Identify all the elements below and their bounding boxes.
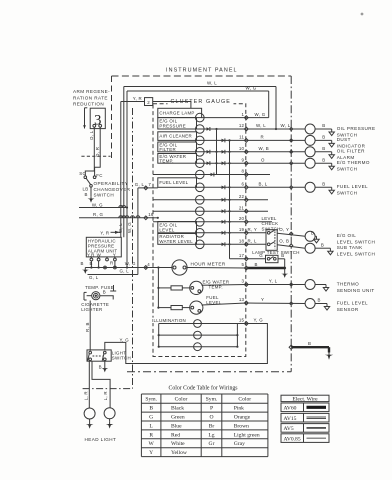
operability changeover switch lever [86, 178, 91, 184]
cluster row pin 20 wire [153, 221, 246, 223]
level check switch box [266, 230, 277, 251]
cluster gauge label [168, 97, 234, 105]
connector diamond pin 6 [244, 185, 248, 189]
cluster row pin 19 wire [197, 232, 247, 234]
oil filter alarm wire [315, 151, 332, 153]
svg-text:W, G: W, G [92, 203, 103, 208]
light switch gang dashes [93, 355, 103, 357]
connector diamond pin 20 [244, 220, 248, 224]
junction dot W,G vertical [126, 206, 128, 208]
junction dot R,G at border [157, 217, 159, 219]
light switch ground wire [104, 361, 106, 366]
svg-text:SUB TANK: SUB TANK [337, 245, 363, 250]
cluster row pin 21 wire [153, 210, 246, 212]
svg-text:B: B [103, 290, 106, 295]
svg-text:W, G: W, G [255, 112, 266, 117]
wire G,L to pin 7 [138, 187, 158, 189]
svg-text:TEMP. FUSE: TEMP. FUSE [85, 285, 114, 290]
svg-text:E/G OIL: E/G OIL [337, 233, 357, 238]
head light right [104, 408, 115, 419]
svg-text:4: 4 [147, 262, 150, 267]
head light left ground [89, 419, 91, 422]
diode row 20 col2 [222, 220, 225, 224]
svg-text:13: 13 [239, 297, 245, 302]
svg-text:Y, R: Y, R [100, 230, 109, 235]
junction dots illumination [158, 334, 160, 336]
svg-text:10: 10 [239, 146, 245, 151]
svg-text:22: 22 [239, 194, 245, 199]
wire W,G riser right [268, 91, 270, 118]
light switch box [87, 350, 111, 361]
svg-text:OIL FILTER: OIL FILTER [337, 149, 365, 154]
svg-text:LIGHT: LIGHT [112, 350, 126, 355]
junction dots diode matrix [215, 128, 217, 130]
e/g water temp label box [158, 154, 197, 164]
svg-text:B: B [281, 253, 284, 258]
svg-text:G, L: G, L [89, 275, 99, 280]
svg-text:1: 1 [242, 112, 245, 117]
row 17 wire [230, 258, 247, 260]
wire W,G vertical [126, 91, 128, 268]
arm regeneration unit terminals [93, 124, 96, 127]
svg-text:16: 16 [148, 212, 154, 217]
svg-text:LEVEL: LEVEL [159, 227, 174, 232]
svg-text:L, R: L, R [103, 391, 108, 400]
svg-text:FUEL LEVEL: FUEL LEVEL [337, 300, 368, 305]
instrument panel boundary right chain [290, 76, 292, 372]
svg-text:W: W [149, 441, 155, 447]
diode row 21 col2 [222, 209, 225, 213]
svg-text:O, R: O, R [95, 147, 100, 157]
svg-text:Black: Black [171, 406, 184, 412]
svg-text:LIGHTER: LIGHTER [81, 307, 102, 312]
cigarette lighter wire right [100, 296, 113, 300]
svg-text:SWITCH: SWITCH [112, 356, 131, 361]
svg-text:7: 7 [148, 182, 151, 187]
wire lamp test to ground riser [278, 258, 285, 260]
svg-text:9: 9 [242, 157, 245, 162]
e/g thermo switch symbol [305, 158, 315, 168]
thick ground wire B [291, 346, 329, 348]
illumination label [152, 318, 195, 323]
svg-text:L, R: L, R [83, 391, 88, 400]
svg-text:SWITCH: SWITCH [94, 193, 115, 198]
svg-text:R, B: R, B [85, 322, 90, 332]
ground thick wire [328, 353, 330, 355]
ground sub tank level switch [329, 248, 331, 251]
svg-text:Orange: Orange [234, 415, 251, 421]
svg-text:Y: Y [149, 450, 153, 456]
color code table grid [140, 394, 142, 457]
pin 3 wire [202, 284, 247, 287]
cluster row pin 8 wire [153, 174, 246, 176]
diode bus B vertical [229, 140, 231, 258]
svg-text:LEVEL SWITCH: LEVEL SWITCH [337, 240, 376, 245]
e/g oil level switch wire [315, 235, 316, 237]
dust indicator symbol [305, 135, 315, 145]
wire Y,G pin15 to light switch [105, 324, 268, 364]
indicator lamp row 12 [196, 125, 205, 134]
connector diamond pin 17 [244, 257, 248, 261]
hour meter symbol [172, 260, 187, 275]
ground e/g oil level switch [316, 236, 318, 239]
resistor fuel gauge [158, 307, 171, 309]
radiator water level label box [158, 234, 197, 245]
cluster row pin 18 wire [197, 243, 247, 245]
svg-text:SWITCH: SWITCH [337, 167, 358, 172]
svg-text:18: 18 [239, 239, 245, 244]
svg-text:B: B [311, 231, 314, 236]
diode row 10 col2 [222, 150, 225, 154]
diode row 9 col1 [207, 161, 210, 165]
sub tank level switch wire [315, 247, 330, 249]
junction dot bus fuel [157, 307, 159, 309]
svg-text:R, G: R, G [93, 212, 104, 217]
indicator lamp row 9 [196, 159, 205, 168]
svg-text:B: B [255, 262, 258, 267]
elect wire row AV60 [281, 403, 329, 412]
connector diamond pin 13 [244, 301, 248, 305]
svg-text:Yellow: Yellow [171, 450, 188, 456]
wire G,L vertical [137, 188, 139, 275]
svg-text:DUST: DUST [337, 137, 351, 142]
cluster row pin 9 wire [197, 162, 247, 164]
svg-text:W, G: W, G [125, 261, 136, 266]
connector diamond pin 16 [144, 216, 148, 220]
ground e/g thermo switch [331, 163, 333, 166]
connector diamond pin 3 [244, 283, 248, 287]
svg-text:B: B [318, 298, 321, 303]
svg-text:Color Code Table for Wirings: Color Code Table for Wirings [168, 384, 238, 391]
svg-text:P: P [210, 406, 213, 412]
air cleaner label box [158, 132, 197, 141]
wire to left head light [88, 362, 90, 409]
svg-text:B: B [322, 135, 325, 140]
svg-text:AV0.85: AV0.85 [284, 436, 301, 442]
light switch contacts [89, 351, 92, 354]
cluster row pin 12 wire [197, 128, 247, 130]
hour meter wire left [153, 267, 172, 269]
e/g oil pressure label box [158, 118, 197, 129]
svg-text:B: B [322, 146, 325, 151]
ground oil pressure switch [331, 129, 333, 132]
head light left [84, 408, 95, 419]
indicator lamp row 11 [196, 136, 205, 145]
ground light switch [104, 366, 106, 368]
cluster row pin 11 wire [197, 139, 247, 141]
junction dot bus hour meter [157, 266, 159, 268]
junction dot B bus [283, 267, 286, 270]
svg-text:5: 5 [242, 262, 245, 267]
wire Y,R vertical [120, 102, 122, 238]
svg-text:AV15: AV15 [284, 416, 297, 422]
svg-text:O, Y: O, Y [279, 227, 289, 232]
wire common to ground [90, 187, 92, 196]
operability changeover switch common contact [90, 185, 93, 188]
svg-text:6: 6 [242, 182, 245, 187]
connector diamond pin 1 [244, 116, 248, 120]
wire R,B vertical [89, 301, 91, 351]
svg-text:FUEL LEVEL: FUEL LEVEL [159, 180, 188, 185]
svg-text:B: B [85, 192, 88, 197]
indicator lamp row 10 [196, 148, 205, 157]
svg-text:Y: Y [113, 253, 116, 258]
svg-text:W, L: W, L [281, 123, 291, 128]
ground dust indicator [331, 140, 333, 143]
cluster row pin 1 wire [202, 117, 247, 119]
cluster row pin 6 wire [197, 186, 247, 188]
ground operability switch [90, 196, 92, 198]
svg-text:2: 2 [147, 100, 150, 105]
svg-text:SENDING UNIT: SENDING UNIT [337, 288, 375, 293]
svg-text:12: 12 [239, 123, 245, 128]
chain line left of cluster [132, 108, 134, 389]
svg-text:Color: Color [175, 397, 188, 403]
svg-text:Br: Br [209, 423, 215, 429]
diode row 9 col2 [222, 161, 225, 165]
ground hydraulic unit [84, 268, 86, 270]
svg-text:B: B [322, 157, 325, 162]
connector diamond pin 9 [244, 161, 248, 165]
diode row 6 col2 [222, 186, 225, 190]
wire W,G top horizontal [127, 90, 269, 92]
connector diamond pin 19 [244, 231, 248, 235]
fuel level sensor symbol [305, 299, 315, 309]
instrument panel boundary left [111, 76, 113, 160]
charge lamp label box [158, 108, 202, 117]
svg-text:B: B [149, 406, 153, 412]
svg-text:REDUCTION: REDUCTION [73, 102, 104, 107]
wire W,L vertical [123, 87, 125, 238]
svg-text:O, B: O, B [279, 239, 289, 244]
light switch levers [88, 354, 90, 361]
e/g water temp gauge symbol [190, 281, 203, 294]
cluster row pin 10 wire [197, 151, 247, 153]
svg-text:Y, G: Y, G [254, 318, 264, 323]
instrument panel boundary top [112, 75, 292, 77]
gauge feed bus vertical [157, 268, 159, 308]
svg-text:B: B [308, 341, 311, 346]
junction dot W,G pin4 [126, 266, 128, 268]
svg-text:AV60: AV60 [284, 406, 297, 412]
e/g oil level switch symbol [305, 231, 315, 241]
svg-text:G, L: G, L [135, 182, 145, 187]
cigarette lighter symbol [87, 295, 92, 297]
svg-text:O: O [261, 157, 265, 162]
svg-text:LAMP TEST SWITCH: LAMP TEST SWITCH [252, 250, 300, 255]
svg-text:R: R [110, 260, 113, 265]
indicator lamp row 18 [196, 240, 205, 249]
svg-text:OIL PRESSURE: OIL PRESSURE [337, 126, 376, 131]
svg-text:11: 11 [239, 135, 244, 140]
wire W,L top horizontal [124, 86, 276, 88]
svg-text:21: 21 [239, 205, 245, 210]
svg-text:L: L [149, 423, 153, 429]
svg-text:WATER LEVEL: WATER LEVEL [159, 239, 193, 244]
svg-text:Color: Color [238, 397, 251, 403]
chain crossing diamonds [290, 127, 293, 130]
connector diamond pin 10 [244, 150, 248, 154]
svg-text:FILTER: FILTER [159, 147, 176, 152]
svg-text:O, L: O, L [89, 130, 94, 140]
svg-text:B: B [322, 182, 325, 187]
svg-text:3: 3 [242, 279, 245, 284]
dimension bracket arm regeneration [84, 108, 86, 129]
illumination lamp 2 [194, 331, 202, 339]
svg-text:17: 17 [239, 253, 245, 258]
fuel level switch symbol [305, 182, 315, 192]
svg-text:Sym.: Sym. [206, 397, 218, 403]
svg-text:Lg: Lg [208, 432, 214, 438]
svg-text:W, L: W, L [256, 123, 266, 128]
dust indicator wire [315, 139, 332, 141]
svg-text:CHARGE LAMP: CHARGE LAMP [159, 110, 194, 115]
svg-text:R, Y: R, Y [248, 227, 258, 232]
svg-text:PRESSURE: PRESSURE [159, 124, 186, 129]
instrument panel boundary bottom [127, 371, 291, 373]
connector diamond pin 8 [244, 173, 248, 177]
ground thermo sending unit [325, 285, 327, 288]
diode row 22 col2 [222, 198, 225, 202]
dashed leader arm regeneration [81, 155, 110, 157]
junction dots hydraulic bus [90, 266, 92, 268]
svg-text:SC: SC [79, 171, 86, 176]
elect wire table header [281, 395, 329, 401]
wire O,R from arm unit [95, 127, 101, 176]
connector diamond pin 7 [144, 186, 148, 190]
svg-text:FUEL LEVEL: FUEL LEVEL [337, 184, 368, 189]
elect wire row AV15 [281, 413, 329, 422]
ground fuel level switch [331, 187, 333, 190]
svg-text:Y, L: Y, L [269, 279, 278, 284]
svg-text:19: 19 [239, 227, 245, 232]
e/g oil filter label box [158, 142, 197, 152]
svg-text:White: White [171, 441, 185, 447]
hour meter wire right [187, 267, 246, 270]
e/g oil level label box [158, 222, 197, 233]
oil pressure switch wire [315, 128, 332, 130]
svg-text:R: R [261, 135, 264, 140]
svg-text:RATION RATE: RATION RATE [73, 95, 108, 100]
svg-text:Sym.: Sym. [145, 397, 157, 403]
resistor water temp [158, 287, 171, 289]
diode row 18 col2 [222, 243, 225, 247]
sub tank level switch symbol [305, 243, 315, 253]
scan speck [361, 13, 364, 16]
svg-text:OPERABILITY: OPERABILITY [94, 181, 129, 186]
svg-text:Y, G: Y, G [120, 338, 130, 343]
ground lamp test B [284, 272, 286, 274]
diode row 19 col2 [222, 231, 225, 235]
svg-text:LB: LB [83, 187, 89, 192]
svg-text:Light green: Light green [234, 432, 260, 438]
junction dot W,L row 12 [275, 128, 277, 130]
level check switch contacts [267, 232, 270, 235]
svg-text:TEMP.: TEMP. [159, 158, 173, 163]
svg-text:AIR CLEANER: AIR CLEANER [159, 134, 192, 139]
svg-text:B: B [322, 123, 325, 128]
svg-text:Y, R: Y, R [133, 96, 142, 101]
terminal circles on bus [104, 266, 107, 269]
svg-text:8: 8 [242, 169, 245, 174]
svg-text:AV5: AV5 [284, 426, 294, 432]
svg-text:Blue: Blue [171, 423, 182, 429]
row 13 wire to sensor [246, 302, 305, 305]
svg-text:Gray: Gray [234, 441, 245, 447]
thermo sending unit wire [315, 284, 326, 286]
hydraulic unit bottom bus [85, 267, 153, 269]
svg-text:FC: FC [96, 173, 102, 178]
fuel gauge symbol [190, 301, 203, 314]
diode row 11 col2 [222, 139, 225, 143]
svg-text:O: O [209, 415, 213, 421]
diode bus A vertical [216, 129, 218, 175]
wire O,L from arm unit [85, 127, 94, 176]
indicator lamp row 1 [196, 113, 205, 122]
svg-text:B, L: B, L [259, 182, 268, 187]
svg-text:SENSOR: SENSOR [337, 307, 359, 312]
svg-text:W, L: W, L [118, 223, 123, 233]
svg-text:SWITCH: SWITCH [262, 226, 281, 231]
row 3 wire to sensor [246, 284, 305, 286]
svg-text:Y,R: Y,R [87, 253, 95, 258]
wire pin2 into charge lamp box [153, 102, 191, 109]
wire W,G left horizontal [79, 207, 127, 209]
indicator lamp row 8 [196, 170, 205, 179]
svg-text:W, B: W, B [259, 146, 269, 151]
svg-text:INSTRUMENT PANEL: INSTRUMENT PANEL [166, 68, 238, 74]
cigarette lighter bracket left [83, 292, 85, 300]
elect wire row AV5 [281, 424, 329, 433]
fuel level switch wire [315, 186, 332, 188]
connector diamond pin 15 [244, 322, 248, 326]
illumination lamp 3 [194, 343, 202, 351]
elect wire row AV0.85 [281, 434, 329, 443]
svg-text:R: R [149, 432, 153, 438]
ground fuel level sensor [326, 304, 328, 307]
svg-text:ARM REGENE-: ARM REGENE- [73, 89, 110, 94]
pin 13 wire [202, 303, 247, 305]
indicator lamp row 19 [196, 229, 205, 238]
illumination lamp 1 [194, 320, 202, 328]
junction dot bus water temp [157, 287, 159, 289]
wire Y,R to pin 2 [121, 101, 145, 103]
wire G to lamp test switch [246, 258, 265, 260]
hydraulic pressure alarm unit box [86, 237, 121, 257]
head light right ground [109, 419, 111, 422]
chain line bottom left horizontal [83, 388, 133, 390]
ground oil filter alarm [331, 152, 333, 155]
row 19 wire to switch [277, 233, 305, 236]
svg-text:CHANGEOVER: CHANGEOVER [94, 187, 131, 192]
svg-text:Red: Red [171, 432, 180, 438]
svg-text:W, G: W, G [127, 222, 132, 233]
connector diamond pin 4 [144, 266, 148, 270]
connector diamond pin 11 [244, 139, 248, 143]
svg-text:Gr: Gr [209, 441, 215, 447]
svg-text:Elect. Wire: Elect. Wire [292, 397, 318, 403]
wire to right head light [92, 362, 110, 408]
cluster row pin 22 wire [153, 199, 246, 201]
diode row 12 col1 [207, 127, 210, 131]
arm regeneration unit box [90, 108, 105, 128]
diode row 8 [211, 173, 214, 177]
svg-text:R, L: R, L [248, 239, 258, 244]
fuel level label box [158, 178, 197, 188]
svg-text:B: B [99, 364, 102, 369]
svg-text:LEVEL SWITCH: LEVEL SWITCH [337, 252, 376, 257]
operability changeover switch contact SC [84, 176, 87, 179]
